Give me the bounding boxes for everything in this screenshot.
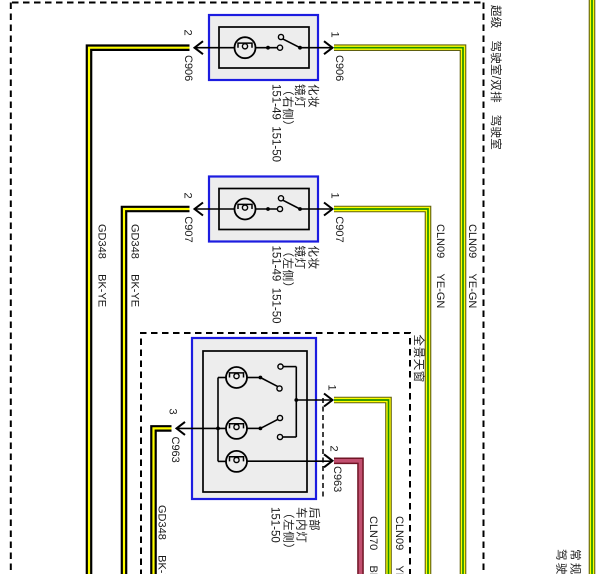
stub to lamp1 xyxy=(218,377,227,379)
svg-text:151-49 151-50: 151-49 151-50 xyxy=(269,246,281,324)
label 后部车内灯（左侧）151-50 xyxy=(269,507,322,555)
stub fixed contact to right bus xyxy=(283,436,297,438)
connector C907 pin1 arrow xyxy=(324,203,333,216)
connector C906 pin1 arrow xyxy=(324,41,333,54)
sunroof option dashed box 全景天窗 xyxy=(141,333,410,574)
svg-text:3: 3 xyxy=(166,409,178,415)
svg-text:（左侧）: （左侧） xyxy=(282,507,296,555)
svg-text:全景天窗: 全景天窗 xyxy=(412,335,426,383)
connector C906 pin2 arrow xyxy=(195,41,204,54)
svg-text:151-50: 151-50 xyxy=(269,507,281,543)
switch S3 fixed contact xyxy=(278,364,283,369)
svg-text:CLN09 YE-GN: CLN09 YE-GN xyxy=(466,224,478,308)
lamp unit U3 housing (blue box) xyxy=(192,338,316,499)
lamp L4 bulb middle xyxy=(226,418,247,439)
wire W3 BK-YE from C907 pin2 xyxy=(124,209,190,574)
switch S4 blade tip contact xyxy=(277,415,282,420)
connector C907 pin2 arrow xyxy=(195,203,204,216)
svg-text:常规: 常规 xyxy=(569,549,583,574)
wire (thin) pin3 into lamp2 xyxy=(177,427,227,429)
label 化妆镜灯（右侧）151-49 151-50 xyxy=(269,84,320,162)
lamp unit U2 housing (blue box) xyxy=(209,177,318,242)
switch S4 blade xyxy=(260,419,278,428)
switch S3 blade xyxy=(260,378,277,387)
lamp L3 bulb top xyxy=(226,367,247,388)
switch S1 blade xyxy=(283,39,300,48)
svg-text:2: 2 xyxy=(327,446,339,452)
svg-text:2: 2 xyxy=(181,30,193,36)
switch S4 pivot dot xyxy=(259,427,263,431)
stub to lamp3 xyxy=(218,460,227,462)
svg-text:C906: C906 xyxy=(333,55,345,81)
connector C963 pin3 arrow xyxy=(177,422,186,435)
svg-text:2: 2 xyxy=(181,193,193,199)
svg-text:（右侧）: （右侧） xyxy=(281,84,295,132)
svg-text:镜灯: 镜灯 xyxy=(293,246,307,270)
svg-text:超级 驾驶室/双排 驾驶室: 超级 驾驶室/双排 驾驶室 xyxy=(489,5,503,150)
connector C963 dashed line xyxy=(322,398,324,498)
junction dot xyxy=(266,207,270,211)
page border dashed top xyxy=(12,2,482,4)
wire (thin) bus to pin1 xyxy=(296,399,332,401)
wire (thin) pin2 to lamp to contact xyxy=(195,47,278,49)
wire (thin) pin2 to lamp to contact xyxy=(195,208,278,210)
svg-text:C907: C907 xyxy=(182,216,194,242)
svg-text:（左侧）: （左侧） xyxy=(281,246,295,294)
junction dot right bus xyxy=(294,398,298,402)
label 化妆镜灯（左侧）151-49 151-50 xyxy=(269,246,320,324)
cab-type divider dashed line xyxy=(483,3,485,574)
switch S3 pivot dot xyxy=(259,376,263,380)
wire (thin) pivot to pin1 xyxy=(300,47,332,49)
page border dashed left xyxy=(10,3,12,574)
svg-text:GD348 BK-YE: GD348 BK-YE xyxy=(95,224,107,307)
wire W6 YE-GN from C963 pin1 xyxy=(334,400,389,574)
svg-text:1: 1 xyxy=(328,193,340,199)
connector C963 pin1 arrow xyxy=(324,394,333,407)
svg-text:151-49 151-50: 151-49 151-50 xyxy=(269,84,281,162)
switch S2 blade tip contact xyxy=(278,196,283,201)
wire lamp1 to switch S3 pivot xyxy=(247,377,261,379)
U1 inner black box xyxy=(219,27,309,68)
junction dot left bus xyxy=(216,427,220,431)
switch S2 fixed contact xyxy=(277,206,282,211)
switch S2 pivot dot xyxy=(298,207,302,211)
wire lamp2 to switch S4 pivot xyxy=(247,427,261,429)
switch S3 blade tip contact xyxy=(277,386,282,391)
switch S2 blade xyxy=(283,200,300,209)
wire W8 YE-GN right feed vertical xyxy=(589,0,596,574)
svg-text:1: 1 xyxy=(328,32,340,38)
svg-text:CLN70 BN: CLN70 BN xyxy=(367,516,379,574)
lamp L5 bulb bottom xyxy=(226,451,247,472)
right bus vertical wire xyxy=(295,367,297,437)
svg-text:化妆: 化妆 xyxy=(307,84,321,108)
wire (thin) lamp3 to pin2 xyxy=(247,460,333,462)
svg-text:C963: C963 xyxy=(331,466,343,492)
svg-text:GD348 BK-YE: GD348 BK-YE xyxy=(155,505,167,574)
switch S1 pivot dot xyxy=(298,46,302,50)
svg-text:后部: 后部 xyxy=(307,507,321,531)
svg-text:CLN09 YE-GN: CLN09 YE-GN xyxy=(434,224,446,308)
wire W2 YE-GN from C906 pin1 xyxy=(334,48,463,574)
switch S1 fixed contact xyxy=(277,45,282,50)
wire W1 BK-YE from C906 pin2 xyxy=(89,48,190,574)
svg-text:驾驶室: 驾驶室 xyxy=(555,549,569,574)
lamp unit U1 housing (blue box) xyxy=(209,15,318,80)
U2 inner black box xyxy=(219,189,309,230)
lamp L1 bulb xyxy=(235,37,256,58)
connector C963 pin2 arrow xyxy=(324,454,333,467)
svg-text:C963: C963 xyxy=(169,437,181,463)
lamp L2 bulb xyxy=(235,199,256,220)
wire W4 YE-GN from C907 pin1 xyxy=(334,209,428,574)
svg-text:1: 1 xyxy=(325,385,337,391)
U3 inner black box xyxy=(203,351,307,492)
wire W7 BN from C963 pin2 xyxy=(334,461,361,574)
svg-text:镜灯: 镜灯 xyxy=(293,84,307,108)
junction dot xyxy=(266,46,270,50)
svg-text:C906: C906 xyxy=(182,55,194,81)
switch S4 fixed contact xyxy=(277,434,282,439)
left bus vertical wire xyxy=(217,378,219,462)
switch S1 blade tip contact xyxy=(278,34,283,39)
stub fixed contact to right bus xyxy=(283,366,296,368)
svg-text:化妆: 化妆 xyxy=(307,246,321,270)
svg-text:GD348 BK-YE: GD348 BK-YE xyxy=(128,224,140,307)
svg-text:CLN09 YE-GN: CLN09 YE-GN xyxy=(393,516,405,574)
svg-text:车内灯: 车内灯 xyxy=(295,507,309,543)
wire W5 BK-YE from C963 pin3 xyxy=(154,428,172,574)
svg-text:C907: C907 xyxy=(333,216,345,242)
wire (thin) pivot to pin1 xyxy=(300,208,332,210)
